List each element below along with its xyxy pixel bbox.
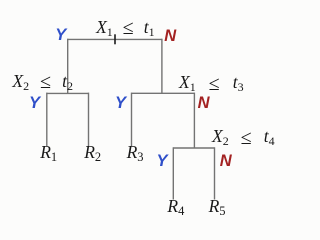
wire right branch [161,39,163,94]
label Y root left [55,27,66,44]
wire root bar [67,38,161,40]
leaf R5 [209,198,226,216]
wire right node bar [132,92,195,94]
wire root stem tick [114,34,116,44]
label Y right node [115,95,126,112]
node left split X2 <= t2 [12,73,73,91]
wire leg to R4 [172,147,174,199]
label Y left node [29,95,40,112]
wire leg to R3 [131,93,133,147]
node right split X1 <= t3 [179,74,244,92]
label N right node [198,95,210,112]
wire branch to fourth node [193,93,195,148]
leaf R1 [40,144,57,162]
wire left node bar [47,92,89,94]
leaf R4 [167,198,184,216]
leaf R3 [127,144,144,162]
wire leg to R1 [46,93,48,147]
wire left branch [67,39,69,94]
node fourth split X2 <= t4 [212,128,275,146]
wire fourth node bar [173,147,214,149]
wire leg to R5 [214,147,216,199]
label Y fourth node [157,153,168,170]
leaf R2 [84,144,101,162]
wire leg to R2 [88,93,90,147]
node root split X1 <= t1 [96,19,155,37]
label N root right [164,28,176,45]
label N fourth node [220,153,232,170]
